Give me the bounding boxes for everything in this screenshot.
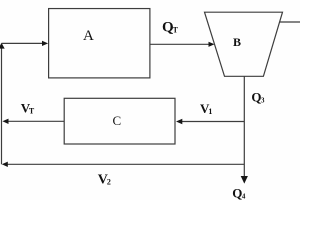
svg-text:QT: QT xyxy=(162,19,179,35)
svg-text:V1: V1 xyxy=(200,101,212,116)
svg-text:B: B xyxy=(233,35,241,49)
svg-text:Q4: Q4 xyxy=(232,185,246,200)
svg-text:V2: V2 xyxy=(98,173,111,188)
svg-text:C: C xyxy=(113,113,122,128)
svg-text:Q3: Q3 xyxy=(251,89,265,104)
svg-text:VT: VT xyxy=(21,100,35,115)
svg-text:A: A xyxy=(83,28,94,44)
